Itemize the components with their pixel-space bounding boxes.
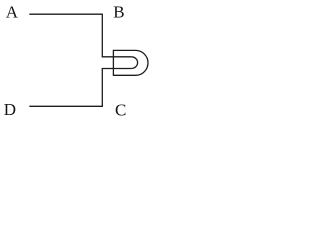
component U1 outer stadium outline: [113, 50, 148, 75]
svg-text:D: D: [4, 100, 16, 119]
inner loop bottom edge + wire stub out of component: [102, 68, 132, 70]
wire stub into component + inner loop top edge: [102, 56, 132, 58]
component U1 inner semicircle (receiver coil loop): [131, 57, 137, 69]
svg-text:A: A: [6, 3, 19, 22]
wire A to B corner (top horizontal): [29, 13, 102, 15]
wire B corner down to component (right vertical upper): [101, 14, 103, 57]
svg-text:B: B: [113, 3, 124, 22]
svg-text:C: C: [115, 100, 126, 119]
wire C corner to D (bottom horizontal): [29, 105, 103, 107]
wire component down to C corner (right vertical lower): [101, 69, 103, 107]
